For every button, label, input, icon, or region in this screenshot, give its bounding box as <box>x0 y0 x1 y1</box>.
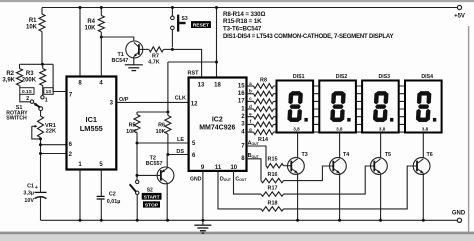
svg-text:T3-T6=BC547: T3-T6=BC547 <box>223 26 262 33</box>
svg-text:CLK: CLK <box>175 96 186 102</box>
wire T1 emitter to ground <box>133 57 135 65</box>
svg-text:b: b <box>249 89 252 94</box>
wire Aout to R15 <box>247 146 267 166</box>
svg-text:10K: 10K <box>126 129 136 135</box>
wire ground bottom rail <box>41 219 458 221</box>
svg-text:BC557: BC557 <box>146 161 163 167</box>
wire LE to IC2 pin5 <box>136 137 189 144</box>
wire to T1 collector <box>101 37 134 41</box>
resistor R7 <box>140 47 172 66</box>
transistor T3 <box>288 152 308 174</box>
wire segment b bus <box>247 93 426 95</box>
wire DIS2 cathode <box>339 133 341 159</box>
svg-text:2: 2 <box>26 96 29 102</box>
svg-text:MM74C926: MM74C926 <box>199 124 235 131</box>
wire to IC1 pin2 <box>39 152 67 155</box>
wire +5V top rail <box>42 7 457 9</box>
capacitor C1 <box>23 183 46 204</box>
svg-text:C2: C2 <box>109 191 116 197</box>
wire DS to IC2 pin6 <box>166 149 188 156</box>
svg-text:DIS4: DIS4 <box>421 74 433 80</box>
pin 16 IC2 segment b <box>238 89 252 98</box>
svg-text:10K: 10K <box>156 129 166 135</box>
resistor R16 <box>261 172 284 183</box>
wire T4 emitter to rail <box>338 173 341 222</box>
wire segment e bus <box>247 116 426 118</box>
svg-text:STOP: STOP <box>145 202 159 208</box>
node R7/S3/RST junction <box>171 48 174 51</box>
ground symbol main <box>194 219 211 233</box>
svg-text:IC1: IC1 <box>86 115 98 124</box>
pin 2 IC1 <box>69 152 73 158</box>
transistor T5 <box>371 152 391 174</box>
wire DIS4 cathode <box>422 133 424 159</box>
label 1S box <box>44 88 53 95</box>
node VR1 wiper junction <box>39 137 42 140</box>
resistor R12 <box>254 114 274 119</box>
label STOP <box>143 201 160 208</box>
svg-text:3,3µ: 3,3µ <box>23 191 34 197</box>
svg-text:R4: R4 <box>87 19 95 25</box>
pin 3 IC2 segment f <box>241 119 251 128</box>
pin 10 IC2 <box>230 165 237 171</box>
pin 7 IC2 Aout <box>241 141 259 150</box>
wire IC2 pin11 Dout to R18 <box>218 171 261 209</box>
wire R17 to T5 base <box>284 166 375 194</box>
svg-text:R1: R1 <box>29 18 37 24</box>
wire node to VCC line <box>168 61 218 113</box>
svg-text:R17: R17 <box>268 186 278 192</box>
wire IC2 pin10 Cout to R17 <box>234 171 262 194</box>
label R14 <box>258 137 268 143</box>
svg-text:S3: S3 <box>182 16 188 22</box>
svg-text:0.1S: 0.1S <box>22 89 33 95</box>
wire R16 to T4 base <box>284 166 334 181</box>
svg-text:16: 16 <box>238 91 245 97</box>
wire segment a bus <box>247 85 426 87</box>
svg-text:e: e <box>249 112 252 117</box>
pin 9 IC2 <box>201 165 205 171</box>
node +5V terminal <box>454 5 465 19</box>
resistor R13 <box>254 122 274 127</box>
resistor R4 <box>84 6 104 37</box>
svg-text:DIS2: DIS2 <box>336 74 348 80</box>
svg-text:3,8: 3,8 <box>379 126 386 131</box>
switch S1 rotary <box>6 96 47 122</box>
svg-text:18: 18 <box>214 82 221 88</box>
transistor T2 BC557 <box>146 155 174 183</box>
switch S3 pushbutton <box>171 6 188 48</box>
wire R2/R3 top bar <box>20 63 54 65</box>
label notes R8-R14 <box>223 11 265 18</box>
wire T2 collector to DS <box>166 155 168 169</box>
capacitor C2 <box>97 191 121 221</box>
transistor T6 <box>413 152 433 174</box>
svg-text:4,7K: 4,7K <box>148 60 159 66</box>
resistor R14 <box>254 130 274 135</box>
resistor R10 <box>254 99 274 104</box>
label START <box>142 193 162 200</box>
svg-text:3,8: 3,8 <box>422 126 429 131</box>
wire +5V to IC2 pin18 <box>215 6 218 78</box>
svg-text:T3: T3 <box>302 152 308 158</box>
pin 6 IC1 <box>69 142 73 148</box>
wire S1 pole down <box>40 111 42 117</box>
svg-text:GND: GND <box>190 176 202 182</box>
svg-text:R18: R18 <box>268 200 278 206</box>
svg-text:a: a <box>249 81 252 86</box>
svg-text:+5V: +5V <box>454 13 465 19</box>
potentiometer VR1 <box>32 116 56 139</box>
wire T5 emitter to rail <box>379 173 382 222</box>
svg-text:BC547: BC547 <box>112 58 129 64</box>
resistor R5 <box>126 112 140 180</box>
resistor R18 <box>261 200 284 211</box>
pin 1 IC1 <box>78 162 82 222</box>
pin 17 IC2 segment c <box>238 96 252 105</box>
svg-text:0,01µ: 0,01µ <box>107 199 121 205</box>
label RESET <box>191 21 211 28</box>
svg-text:12: 12 <box>191 102 198 108</box>
svg-text:10K: 10K <box>26 25 38 31</box>
svg-text:10K: 10K <box>84 25 96 31</box>
transistor T4 <box>330 152 350 174</box>
label notes DIS1-DIS4 <box>223 33 393 40</box>
node GND terminal <box>452 211 466 223</box>
label notes T3-T6 <box>223 26 262 33</box>
resistor R11 <box>254 107 274 112</box>
svg-text:3,8: 3,8 <box>336 126 343 131</box>
wire IC2 pin9 GND to rail <box>202 171 204 220</box>
svg-text:T4: T4 <box>343 152 349 158</box>
svg-text:GND: GND <box>452 211 466 217</box>
wire DIS3 cathode <box>380 133 382 159</box>
resistor R17 <box>261 186 284 197</box>
resistor R6 <box>156 112 171 155</box>
svg-text:10V: 10V <box>24 198 34 204</box>
node junction R1/R3 <box>41 63 44 66</box>
svg-text:g: g <box>249 127 252 132</box>
svg-text:R15: R15 <box>268 156 278 162</box>
wire to IC1 pin6 <box>39 143 67 146</box>
wire T3 emitter to rail <box>296 173 299 222</box>
svg-text:+: + <box>35 185 38 191</box>
wire RST to IC2 pin13 <box>172 49 201 77</box>
svg-text:R8-R14 = 330Ω: R8-R14 = 330Ω <box>223 11 265 18</box>
svg-text:3,9K: 3,9K <box>2 77 15 83</box>
node R4 / pin4 / T1 junction <box>100 36 103 39</box>
svg-text:T5: T5 <box>385 152 391 158</box>
svg-text:10: 10 <box>230 165 237 171</box>
pin 18 IC2 <box>214 82 221 88</box>
svg-text:R2: R2 <box>6 71 14 77</box>
pin 3 IC1 O/P <box>110 97 129 107</box>
svg-text:DIS1-DIS4 = LT543 COMMON-CATHO: DIS1-DIS4 = LT543 COMMON-CATHODE, 7-SEGM… <box>223 33 393 40</box>
svg-text:13: 13 <box>198 82 205 88</box>
svg-text:RESET: RESET <box>193 23 209 29</box>
svg-text:S2: S2 <box>147 188 153 194</box>
pin 7 IC1 wire from 1S <box>53 64 73 98</box>
svg-text:d: d <box>249 104 252 109</box>
wire O/P to CLK <box>116 96 188 103</box>
wire segment f bus <box>247 123 426 125</box>
svg-text:15: 15 <box>238 83 245 89</box>
wire T6 emitter to rail <box>422 173 425 222</box>
svg-text:R6: R6 <box>158 123 165 129</box>
svg-text:DIS1: DIS1 <box>293 74 305 80</box>
wire T2 emitter to rail <box>166 183 169 222</box>
svg-text:DS: DS <box>176 149 184 155</box>
wire segment d bus <box>247 108 426 110</box>
pin 6 IC2 <box>192 153 196 159</box>
svg-text:c: c <box>249 96 252 101</box>
svg-text:RST: RST <box>188 71 200 77</box>
pin 8 IC1 <box>78 6 82 86</box>
pin 4 IC1 <box>99 37 103 86</box>
pin 13 IC2 <box>198 82 205 88</box>
svg-text:C1: C1 <box>27 183 34 189</box>
resistor R15 <box>266 156 284 168</box>
resistor R3 <box>22 64 46 95</box>
pin 11 IC2 <box>215 165 222 171</box>
7-segment display DIS2 <box>319 74 356 132</box>
svg-text:11: 11 <box>215 165 222 171</box>
pin 12 IC2 <box>191 102 198 108</box>
label notes R15-R18 <box>223 18 262 25</box>
svg-text:T6: T6 <box>427 152 433 158</box>
label Dout IC2 <box>220 176 232 182</box>
pin 8 IC2 Bout <box>241 153 259 162</box>
svg-text:17: 17 <box>238 99 245 105</box>
resistor R9 <box>254 91 274 96</box>
svg-text:3,8: 3,8 <box>293 126 300 131</box>
pin 5 IC2 <box>192 141 196 147</box>
wire segment g bus <box>247 131 426 133</box>
label GND IC2 <box>190 176 202 182</box>
wire segment c bus <box>247 100 426 102</box>
7-segment display DIS4 <box>405 74 442 132</box>
wire DIS1 cathode <box>297 133 299 159</box>
label R8 <box>260 77 267 83</box>
pin 15 IC2 segment a <box>238 81 252 90</box>
svg-text:22K: 22K <box>46 129 56 135</box>
wire 0.1S to contact 2 <box>20 94 30 102</box>
pin 4 IC2 segment g <box>241 127 252 136</box>
wire C1 to rail <box>40 197 42 220</box>
resistor R2 <box>2 64 22 87</box>
svg-text:R16: R16 <box>268 172 278 178</box>
svg-text:SWITCH: SWITCH <box>6 116 27 122</box>
svg-text:DOUT: DOUT <box>220 176 232 182</box>
svg-text:1S: 1S <box>46 89 53 95</box>
svg-text:R5: R5 <box>129 123 136 129</box>
svg-text:1: 1 <box>45 98 48 104</box>
resistor R1 <box>26 8 45 65</box>
wire R15 to T3 base <box>284 165 292 167</box>
label Cout IC2 <box>235 176 247 182</box>
wire R18 to T6 base <box>284 166 418 209</box>
label 0.1S box <box>20 88 34 95</box>
7-segment display DIS1 <box>277 74 314 132</box>
pin 5 IC1 <box>99 162 103 196</box>
svg-text:START: START <box>144 194 160 200</box>
pin 1 IC2 segment d <box>241 104 252 113</box>
svg-text:R14: R14 <box>258 137 268 143</box>
wire R5/R6 top bar <box>137 111 169 114</box>
ground symbol T1 <box>125 65 143 71</box>
wire T2 base <box>136 174 161 177</box>
svg-text:R3: R3 <box>26 71 34 77</box>
resistor R8 <box>254 84 274 89</box>
7-segment display DIS3 <box>362 74 399 132</box>
svg-text:LE: LE <box>177 137 184 143</box>
wire left column to C1 <box>40 138 42 193</box>
wire Bout to R16 <box>247 159 262 181</box>
switch S2 <box>130 180 153 222</box>
svg-text:R15-R18 = 1K: R15-R18 = 1K <box>223 18 262 25</box>
svg-text:200K: 200K <box>22 77 37 83</box>
pin 2 IC2 segment e <box>241 112 252 121</box>
op-amp U1 IC1 LM555 box <box>67 77 117 170</box>
svg-text:COUT: COUT <box>235 176 247 182</box>
svg-text:IC2: IC2 <box>212 116 223 123</box>
svg-text:DIS3: DIS3 <box>379 74 391 80</box>
op-amp U2 IC2 MM74C926 box <box>189 78 247 171</box>
transistor T1 BC547 (mirrored) <box>112 41 143 64</box>
svg-text:LM555: LM555 <box>80 124 103 133</box>
svg-text:R8: R8 <box>260 77 267 83</box>
